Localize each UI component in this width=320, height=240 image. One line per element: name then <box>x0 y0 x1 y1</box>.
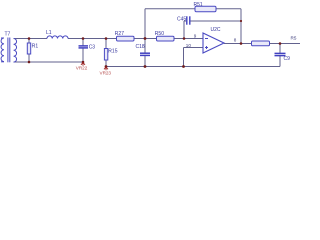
output resistor <box>252 41 270 46</box>
svg-text:C45: C45 <box>177 17 186 23</box>
resistor R15 <box>104 49 107 61</box>
resistor R1 <box>27 43 30 54</box>
wire feedback top <box>145 8 241 10</box>
resistor R51 <box>195 6 216 11</box>
wire C9 leads <box>279 44 281 54</box>
wire C18 leads <box>144 39 146 53</box>
svg-text:9: 9 <box>194 33 197 38</box>
svg-text:R50: R50 <box>155 31 164 37</box>
svg-text:R15: R15 <box>108 49 117 55</box>
capacitor C9 <box>275 52 286 54</box>
wire top main <box>14 38 48 40</box>
svg-text:10: 10 <box>186 43 192 48</box>
svg-text:R1: R1 <box>32 44 39 50</box>
svg-text:R5: R5 <box>291 36 297 41</box>
svg-text:U2C: U2C <box>211 27 221 33</box>
wire feedback right vertical <box>240 9 242 44</box>
wire pin10 <box>184 47 204 49</box>
svg-text:R51: R51 <box>194 2 203 8</box>
wire top main right of L1 <box>68 38 203 40</box>
capacitor C45 <box>186 16 188 24</box>
svg-text:8: 8 <box>234 37 237 42</box>
svg-text:C18: C18 <box>136 44 145 50</box>
svg-text:R27: R27 <box>115 31 124 37</box>
wire op-amp output <box>224 43 300 45</box>
svg-text:C9: C9 <box>284 56 291 62</box>
wire bottom-left <box>14 61 84 63</box>
wire bottom bus <box>106 66 280 68</box>
svg-text:C3: C3 <box>89 44 96 50</box>
wire R15 leads <box>105 39 107 49</box>
svg-text:VR23: VR23 <box>100 71 112 76</box>
svg-text:VR22: VR22 <box>76 65 88 70</box>
junction dots <box>28 20 282 68</box>
capacitor C3 <box>79 45 89 47</box>
svg-text:L1: L1 <box>46 30 52 36</box>
capacitor C18 <box>140 52 150 54</box>
wire feedback vertical at mid junction <box>144 9 146 39</box>
svg-text:T7: T7 <box>5 31 11 37</box>
power flag VR22 <box>81 62 85 66</box>
wire C3 leads <box>82 39 84 46</box>
power flag VR23 <box>104 67 108 71</box>
op-amp U2C <box>203 33 224 53</box>
wire C45 branch <box>184 20 186 22</box>
resistor R27 <box>117 36 135 41</box>
resistor R50 <box>157 36 175 41</box>
inductor L1 <box>47 36 68 39</box>
transformer T7 <box>1 38 17 63</box>
wire R1 leads <box>28 39 30 44</box>
